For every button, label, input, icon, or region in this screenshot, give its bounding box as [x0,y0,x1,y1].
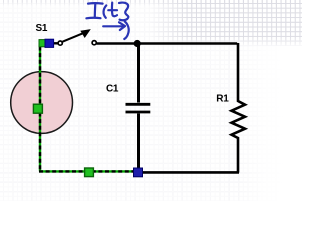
svg-text:R1: R1 [216,94,229,105]
svg-text:C1: C1 [106,84,119,95]
svg-text:S1: S1 [36,23,48,34]
